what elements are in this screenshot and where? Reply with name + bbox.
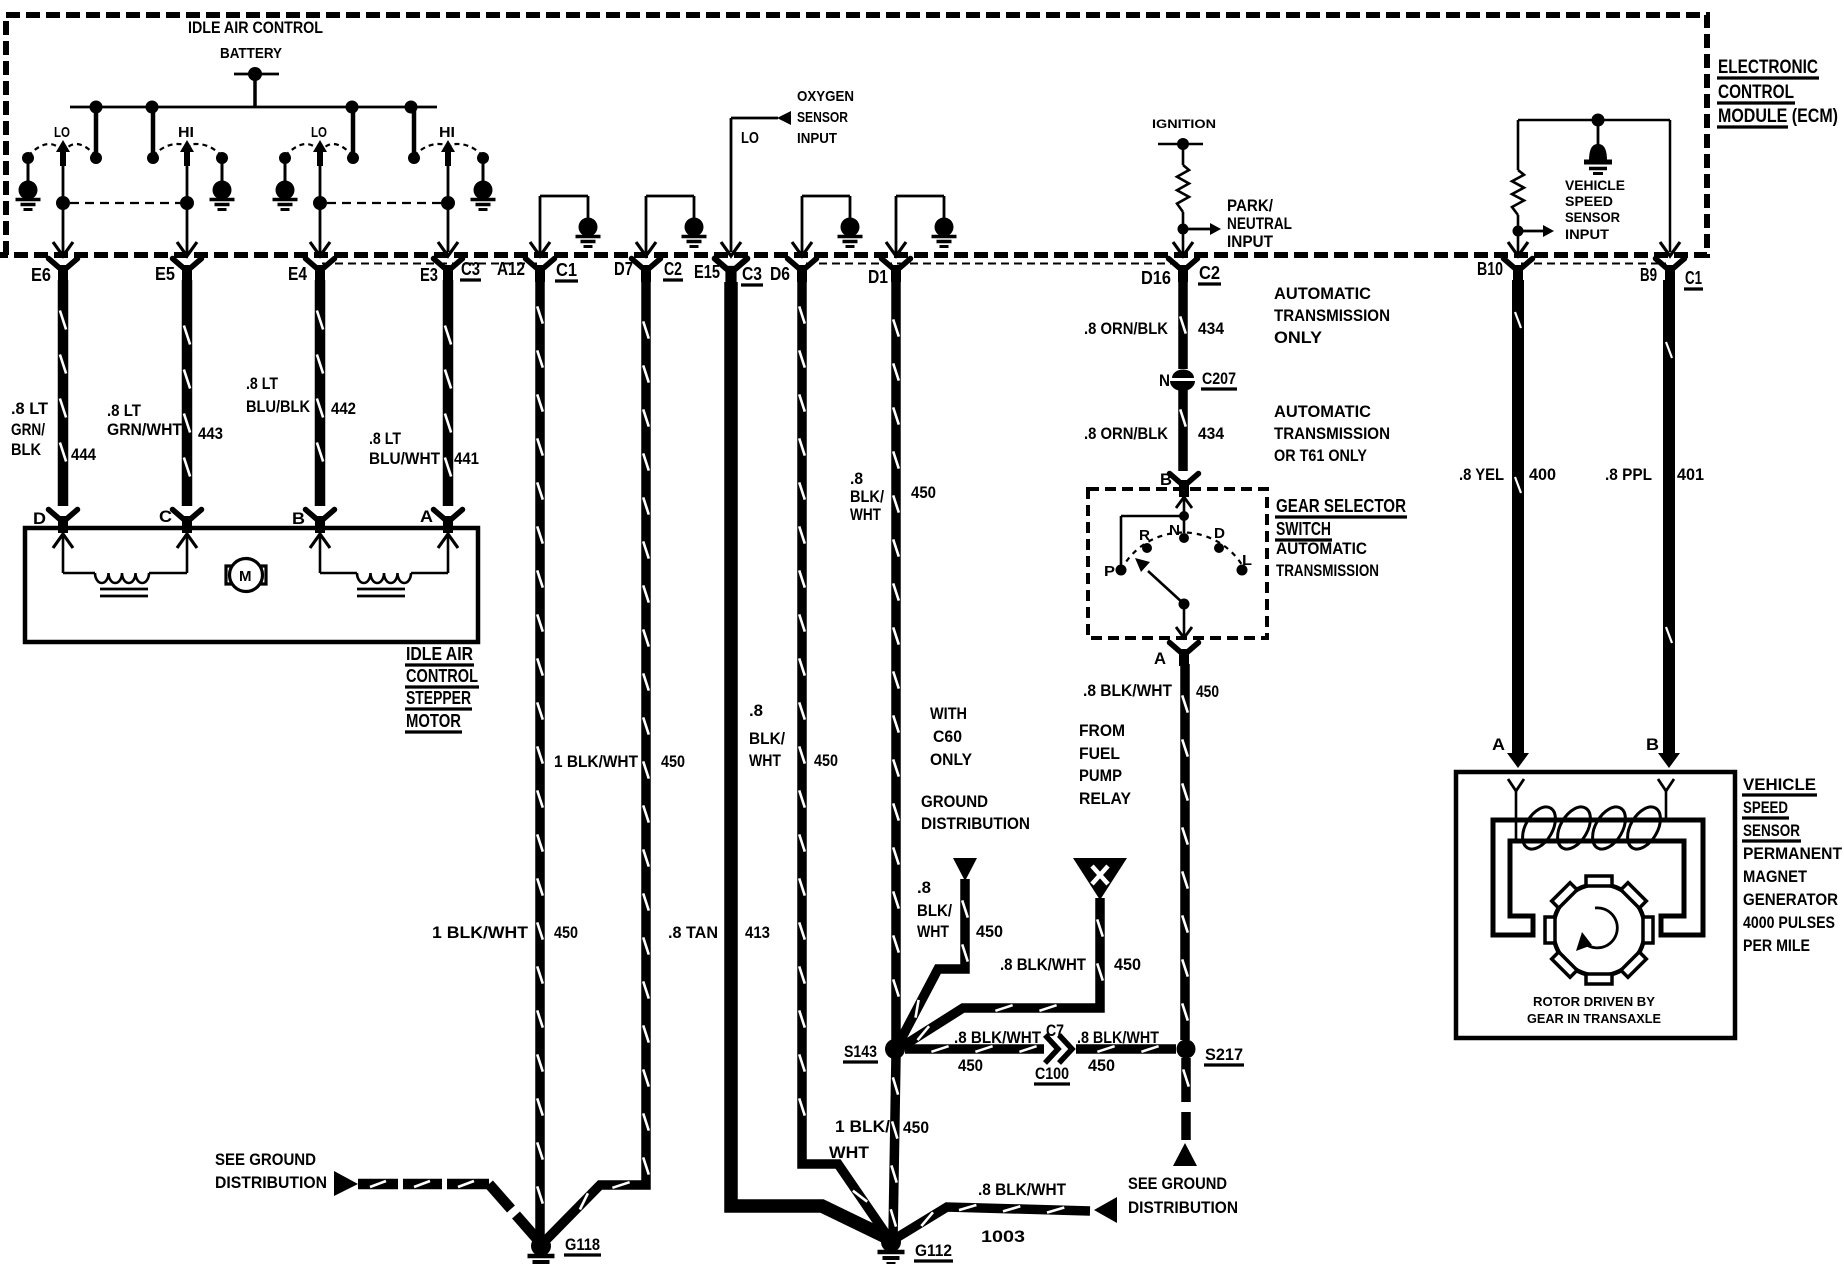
svg-text:TRANSMISSION: TRANSMISSION [1276, 561, 1379, 580]
svg-text:G112: G112 [915, 1241, 952, 1260]
svg-text:C3: C3 [461, 259, 480, 279]
gear switch wiper [1179, 599, 1190, 610]
svg-text:AUTOMATIC: AUTOMATIC [1276, 539, 1367, 558]
svg-text:D16: D16 [1141, 268, 1171, 288]
svg-text:.8 YEL: .8 YEL [1459, 465, 1504, 484]
svg-text:D: D [1214, 525, 1225, 542]
svg-text:.8 TAN: .8 TAN [668, 923, 718, 942]
wire 450 gear A to S217 [1180, 664, 1190, 1040]
IAC winding 2 coil [320, 572, 357, 575]
IAC driver LO x=320: wiper arrow and contact [313, 140, 327, 152]
svg-text:.8: .8 [917, 878, 931, 897]
wire 450 A12 to G118 [535, 280, 545, 1238]
svg-text:.8 BLK/WHT: .8 BLK/WHT [1083, 681, 1173, 700]
svg-text:TRANSMISSION: TRANSMISSION [1274, 424, 1390, 443]
svg-text:A12: A12 [497, 259, 525, 279]
svg-text:TRANSMISSION: TRANSMISSION [1274, 306, 1390, 325]
svg-text:SEE GROUND: SEE GROUND [1128, 1174, 1227, 1193]
svg-text:401: 401 [1677, 465, 1704, 484]
vss internal resistor leg B10 [1517, 120, 1520, 170]
svg-text:BLK: BLK [11, 440, 42, 459]
svg-text:HI: HI [178, 124, 194, 141]
svg-text:1 BLK/WHT: 1 BLK/WHT [432, 923, 529, 942]
svg-text:SPEED: SPEED [1743, 798, 1788, 817]
wire 450 S143 to C100 [905, 1044, 1044, 1054]
dashed wire to G118 [358, 1179, 398, 1190]
IAC winding 1 right lead arrow [186, 536, 189, 573]
svg-text:DISTRIBUTION: DISTRIBUTION [215, 1173, 327, 1192]
wire 400 B10 to VSS A [1512, 280, 1524, 754]
connector boundary dashed line B10-B9 [1521, 263, 1666, 265]
battery feed node [234, 73, 279, 76]
bus junction dots [90, 101, 103, 114]
IAC driver LO x=63: wiper arrow and contact [56, 140, 70, 152]
arrowhead into VSS A [1507, 753, 1529, 768]
svg-text:450: 450 [911, 483, 936, 502]
svg-text:BLK/: BLK/ [917, 901, 952, 920]
battery bus wire [70, 106, 437, 109]
svg-text:GROUND: GROUND [921, 792, 988, 811]
svg-text:SPEED: SPEED [1565, 193, 1613, 209]
IAC driver HI x=448: contact dots [477, 152, 489, 164]
svg-text:AUTOMATIC: AUTOMATIC [1274, 284, 1371, 303]
connector boundary dashed line E4-A12 [322, 263, 537, 265]
svg-text:A: A [1154, 649, 1166, 668]
svg-text:441: 441 [454, 449, 479, 468]
IAC motor terminal D [49, 510, 78, 534]
svg-text:E3: E3 [420, 265, 438, 285]
svg-text:ELECTRONIC: ELECTRONIC [1718, 57, 1818, 78]
svg-text:BLU/BLK: BLU/BLK [246, 397, 311, 416]
svg-text:B: B [1160, 470, 1172, 489]
svg-text:DISTRIBUTION: DISTRIBUTION [921, 814, 1030, 833]
IAC driver LO x=320: contact dots [279, 152, 291, 164]
svg-text:B: B [1646, 735, 1659, 754]
svg-text:LO: LO [311, 124, 327, 141]
ECM connector pin B10 terminal [1504, 259, 1533, 283]
svg-text:A: A [1492, 735, 1505, 754]
svg-text:DISTRIBUTION: DISTRIBUTION [1128, 1198, 1238, 1217]
VSS rotor gear [1553, 884, 1645, 976]
svg-text:434: 434 [1198, 319, 1224, 338]
wire 401 B9 to VSS B [1663, 280, 1675, 754]
IAC winding 2 core [357, 588, 405, 591]
wire 441 E3 to IAC A [443, 280, 454, 506]
svg-text:D1: D1 [868, 267, 888, 287]
svg-text:.8 BLK/WHT: .8 BLK/WHT [1077, 1028, 1160, 1047]
svg-text:SENSOR: SENSOR [1565, 209, 1620, 225]
IAC driver LO x=63: dashed contact arcs [28, 144, 58, 156]
gear switch pin A terminal [1170, 643, 1199, 667]
svg-text:IDLE AIR: IDLE AIR [406, 644, 473, 664]
ECM internal ground circuit for pin D1 [895, 196, 898, 252]
connector C207 [1172, 370, 1194, 379]
ECM connector pin E5 terminal [173, 259, 202, 283]
IAC driver HI x=448: dashed contact arcs [443, 144, 483, 156]
svg-text:OR T61 ONLY: OR T61 ONLY [1274, 446, 1368, 465]
VSS magnet core [1493, 820, 1703, 935]
svg-text:R: R [1139, 527, 1150, 544]
svg-text:GEAR SELECTOR: GEAR SELECTOR [1276, 496, 1406, 516]
svg-text:B10: B10 [1477, 259, 1503, 279]
gear switch contact arc [1121, 533, 1246, 572]
IAC driver HI x=187: ground [221, 158, 224, 181]
svg-text:413: 413 [745, 923, 770, 942]
IAC driver HI x=187: dashed contact arcs [182, 144, 222, 156]
svg-text:450: 450 [1114, 955, 1141, 974]
IAC stepper motor box [25, 528, 478, 642]
off-page triangle (ground distribution small) [953, 858, 977, 881]
svg-text:1 BLK/: 1 BLK/ [835, 1117, 890, 1136]
wire 450 S143 to G112 [893, 1056, 896, 1237]
ECM connector pin E4 terminal [306, 259, 335, 283]
off-page triangle X (fuel pump relay) [1073, 858, 1127, 900]
ECM internal ground circuit for pin D6 [801, 196, 804, 252]
svg-text:INPUT: INPUT [1565, 226, 1609, 242]
gear switch feed to P contact [1121, 515, 1184, 518]
wire 450 X triangle to S143 [903, 898, 1100, 1046]
svg-text:S143: S143 [844, 1042, 877, 1061]
VSS B entry arrow [1658, 779, 1674, 791]
svg-text:450: 450 [1088, 1056, 1115, 1075]
wire 413 E15 to G112 [731, 282, 886, 1237]
svg-text:MAGNET: MAGNET [1743, 867, 1808, 886]
vehicle speed sensor box [1456, 772, 1735, 1038]
svg-text:400: 400 [1529, 465, 1556, 484]
svg-text:.8: .8 [749, 701, 763, 720]
svg-text:SENSOR: SENSOR [797, 109, 848, 126]
IAC motor terminal C [173, 510, 202, 534]
wire S217 to ground distribution triangle [1181, 1058, 1191, 1102]
svg-text:ONLY: ONLY [930, 750, 973, 769]
svg-text:STEPPER: STEPPER [406, 688, 471, 708]
gear switch feed junction dot [1179, 511, 1189, 521]
ECM connector pin A12 terminal [526, 259, 555, 283]
off-page arrow (left ground distribution) [334, 1171, 358, 1196]
svg-text:CONTROL: CONTROL [406, 666, 478, 686]
IAC winding 2 right lead arrow [447, 536, 450, 573]
svg-text:SENSOR: SENSOR [1743, 821, 1800, 840]
svg-text:.8 LT: .8 LT [107, 401, 142, 420]
wire 450 D1 to S143 [891, 280, 901, 1042]
gear selector switch dashed box [1088, 489, 1267, 638]
svg-text:C2: C2 [1199, 263, 1220, 283]
svg-text:C100: C100 [1035, 1064, 1069, 1083]
IAC driver LO x=320: ground [284, 158, 287, 181]
svg-text:SEE GROUND: SEE GROUND [215, 1150, 316, 1169]
svg-text:GRN/WHT: GRN/WHT [107, 420, 183, 439]
svg-text:450: 450 [554, 923, 578, 942]
vss internal leg B9 [1669, 120, 1672, 252]
svg-text:.8 PPL: .8 PPL [1605, 465, 1652, 484]
svg-text:BLK/: BLK/ [850, 487, 884, 506]
wire 450 small triangle to S143 [898, 879, 965, 1045]
svg-text:C: C [159, 507, 172, 526]
svg-text:E5: E5 [155, 264, 175, 284]
IAC winding 1 left lead arrow [53, 534, 73, 548]
vss internal top wire [1518, 119, 1670, 122]
gear switch pin B terminal [1170, 474, 1199, 498]
gear switch input arrow [1176, 497, 1192, 508]
ECM connector pin D16 terminal [1169, 259, 1198, 283]
svg-text:IGNITION: IGNITION [1152, 117, 1216, 131]
svg-text:WHT: WHT [917, 922, 949, 941]
svg-text:.8 BLK/WHT: .8 BLK/WHT [954, 1028, 1042, 1047]
svg-text:N: N [1159, 371, 1170, 390]
splice S217 [1177, 1040, 1196, 1059]
ECM connector pin D7 terminal [632, 259, 661, 283]
ground G118 [528, 1236, 555, 1264]
svg-text:C1: C1 [1685, 268, 1702, 288]
svg-text:ONLY: ONLY [1274, 328, 1323, 347]
svg-text:WHT: WHT [829, 1143, 870, 1162]
svg-text:443: 443 [198, 424, 223, 443]
svg-text:SWITCH: SWITCH [1276, 519, 1331, 539]
svg-text:M: M [239, 568, 252, 585]
arrowhead into VSS B [1658, 753, 1680, 768]
svg-text:.8 LT: .8 LT [369, 429, 402, 448]
svg-text:IDLE AIR CONTROL: IDLE AIR CONTROL [188, 18, 323, 37]
svg-text:1003: 1003 [981, 1227, 1025, 1246]
svg-text:FROM: FROM [1079, 721, 1125, 740]
VSS coil winding [1516, 801, 1562, 854]
svg-text:N: N [1169, 522, 1180, 539]
ECM dashed box border [0, 15, 1707, 255]
svg-text:GEAR IN TRANSAXLE: GEAR IN TRANSAXLE [1527, 1011, 1661, 1026]
vss internal bell ground [1597, 120, 1600, 146]
IAC driver HI x=448: output line to pin [447, 164, 450, 252]
svg-text:PARK/: PARK/ [1227, 196, 1273, 215]
wire 442 E4 to IAC B [315, 280, 326, 506]
svg-text:L: L [1242, 552, 1252, 569]
IAC driver HI x=187: output line to pin [186, 164, 189, 252]
svg-text:GRN/: GRN/ [11, 420, 45, 439]
connector boundary dashed line D6-D16 [806, 263, 1180, 265]
svg-text:A: A [420, 507, 433, 526]
ECM internal ground circuit for pin A12 [539, 196, 542, 252]
VSS rotor rotation arrow [1587, 908, 1617, 948]
IAC driver HI x=448: bus tap [412, 107, 417, 158]
svg-text:.8 ORN/BLK: .8 ORN/BLK [1084, 424, 1169, 443]
IAC winding 2 left lead arrow [310, 534, 330, 548]
svg-text:450: 450 [958, 1056, 983, 1075]
IAC motor terminal B [306, 510, 335, 534]
svg-text:ROTOR DRIVEN BY: ROTOR DRIVEN BY [1533, 994, 1655, 1009]
svg-text:434: 434 [1198, 424, 1224, 443]
IAC driver LO x=63: ground [27, 158, 30, 181]
svg-text:.8 BLK/WHT: .8 BLK/WHT [1000, 955, 1087, 974]
ECM connector pin E3 terminal [434, 259, 463, 283]
wire 450 D7 to G118 [547, 280, 646, 1239]
dashed crossfire line LO1-HI1 [70, 202, 180, 204]
ignition resistor [1182, 144, 1185, 165]
svg-text:C2: C2 [664, 259, 682, 279]
splice S143 [885, 1039, 905, 1059]
svg-text:C1: C1 [556, 260, 577, 280]
svg-text:450: 450 [976, 922, 1003, 941]
svg-text:HI: HI [439, 124, 455, 141]
IAC driver LO x=63: bus tap [94, 107, 99, 158]
VSS A entry arrow [1508, 779, 1524, 791]
svg-text:BLU/WHT: BLU/WHT [369, 449, 441, 468]
IAC driver HI x=448: wiper arrow and contact [441, 140, 455, 152]
IAC driver HI x=187: contact dots [216, 152, 228, 164]
svg-text:RELAY: RELAY [1079, 789, 1132, 808]
svg-text:INPUT: INPUT [1227, 232, 1274, 251]
svg-text:D7: D7 [614, 259, 633, 279]
svg-text:C207: C207 [1202, 369, 1236, 388]
svg-text:442: 442 [331, 399, 356, 418]
svg-text:VEHICLE: VEHICLE [1743, 775, 1816, 794]
off-page arrow (1003 ground distribution) [1094, 1197, 1117, 1223]
IAC driver LO x=320: dashed contact arcs [285, 144, 315, 156]
svg-text:.8 LT: .8 LT [11, 399, 49, 418]
park/neutral junction dot and arrow [1178, 224, 1189, 235]
wire 1003 G112 to ground distribution [893, 1207, 1090, 1240]
ground G112 [878, 1232, 905, 1264]
IAC motor M symbol [230, 559, 263, 592]
IAC winding 1 coil [63, 572, 95, 575]
svg-text:LO: LO [741, 130, 759, 147]
svg-text:GENERATOR: GENERATOR [1743, 890, 1838, 909]
IAC driver LO x=63: output line to pin [62, 164, 65, 252]
svg-text:C3: C3 [742, 264, 762, 284]
oxygen sensor input line (E15) [730, 118, 733, 252]
wire 450 C100 to S217 [1076, 1044, 1176, 1054]
svg-text:PER MILE: PER MILE [1743, 936, 1810, 955]
svg-text:INPUT: INPUT [797, 130, 837, 147]
svg-text:BLK/: BLK/ [749, 729, 785, 748]
wire 434 D16 to C207 [1178, 280, 1188, 369]
svg-text:.8 BLK/WHT: .8 BLK/WHT [978, 1180, 1067, 1199]
svg-text:450: 450 [814, 751, 838, 770]
ECM connector pin D1 terminal [882, 259, 911, 283]
gear switch contacts P R N D L [1116, 565, 1127, 576]
svg-text:E6: E6 [31, 265, 51, 285]
svg-text:.8 ORN/BLK: .8 ORN/BLK [1084, 319, 1169, 338]
svg-text:D: D [33, 509, 46, 528]
IAC driver HI x=187: wiper arrow and contact [180, 140, 194, 152]
svg-text:PERMANENT: PERMANENT [1743, 844, 1843, 863]
svg-text:444: 444 [71, 445, 96, 464]
IAC driver LO x=63: contact dots [22, 152, 34, 164]
svg-text:NEUTRAL: NEUTRAL [1227, 214, 1292, 233]
IAC driver HI x=448: ground [482, 158, 485, 181]
IAC driver LO x=320: output line to pin [319, 164, 322, 252]
wire 443 E5 to IAC C [182, 280, 193, 506]
svg-text:LO: LO [54, 124, 70, 141]
svg-text:.8 LT: .8 LT [246, 374, 279, 393]
svg-text:E15: E15 [694, 262, 720, 282]
svg-text:D6: D6 [770, 264, 790, 284]
svg-text:S217: S217 [1205, 1045, 1243, 1064]
ECM connector pin B9 terminal [1656, 259, 1685, 283]
svg-text:BATTERY: BATTERY [220, 45, 282, 62]
svg-text:PUMP: PUMP [1079, 766, 1122, 785]
svg-text:450: 450 [903, 1118, 929, 1137]
svg-text:WHT: WHT [850, 505, 881, 524]
svg-text:B9: B9 [1640, 265, 1657, 285]
ECM internal ground circuit for pin D7 [645, 196, 648, 252]
ECM connector pin D6 terminal [788, 259, 817, 283]
svg-text:WITH: WITH [930, 704, 967, 723]
wire 444 E6 to IAC D [58, 280, 69, 506]
svg-text:1 BLK/WHT: 1 BLK/WHT [554, 752, 639, 771]
ECM connector pin E6 terminal [49, 259, 78, 283]
svg-text:450: 450 [1196, 682, 1219, 701]
svg-text:CONTROL: CONTROL [1718, 82, 1794, 103]
wire 434 C207 to gear switch B [1178, 390, 1188, 471]
svg-text:G118: G118 [565, 1235, 600, 1254]
svg-text:MODULE (ECM): MODULE (ECM) [1718, 106, 1838, 127]
ECM connector pin E15 terminal [715, 259, 747, 285]
vss input arrow [1518, 230, 1545, 233]
svg-text:450: 450 [661, 752, 685, 771]
svg-text:E4: E4 [288, 264, 307, 284]
wire 450 D6 to G112 [802, 280, 888, 1237]
svg-text:C60: C60 [933, 727, 962, 746]
IAC motor terminal A [434, 510, 463, 534]
svg-text:P: P [1104, 563, 1115, 580]
svg-text:VEHICLE: VEHICLE [1565, 177, 1625, 193]
gear switch output to A [1183, 604, 1186, 636]
IAC winding 1 core [100, 588, 148, 591]
IAC driver HI x=187: bus tap [151, 107, 156, 158]
svg-text:4000 PULSES: 4000 PULSES [1743, 913, 1835, 932]
svg-text:B: B [292, 509, 305, 528]
dashed crossfire line LO2-HI2 [327, 202, 441, 204]
svg-text:AUTOMATIC: AUTOMATIC [1274, 402, 1371, 421]
svg-text:C7: C7 [1046, 1021, 1064, 1040]
IAC driver LO x=320: bus tap [351, 107, 356, 158]
svg-text:FUEL: FUEL [1079, 744, 1120, 763]
off-page triangle (S217 ground distribution) [1173, 1143, 1197, 1166]
svg-text:MOTOR: MOTOR [406, 711, 461, 731]
svg-text:WHT: WHT [749, 751, 781, 770]
svg-text:OXYGEN: OXYGEN [797, 88, 854, 105]
connector C100 chevrons [1045, 1035, 1058, 1063]
svg-text:.8: .8 [850, 469, 863, 488]
